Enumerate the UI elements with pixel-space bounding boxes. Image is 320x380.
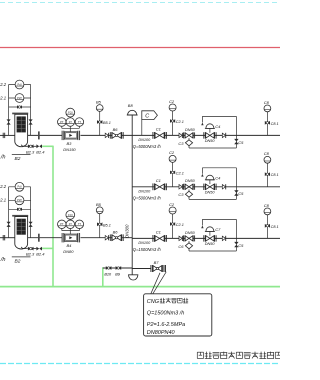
svg-text:DN80: DN80	[63, 249, 74, 254]
wire: B5 standpipe	[99, 112, 101, 136]
instrument TT B4	[75, 220, 84, 229]
wire: pilot sensing line	[201, 116, 203, 122]
svg-text:B7: B7	[154, 260, 160, 265]
flag connector C	[141, 120, 143, 136]
svg-text:B2.2: B2.2	[0, 184, 7, 189]
instrument PT B3	[58, 118, 67, 127]
wire: PdI rung B2	[9, 186, 31, 188]
svg-text:DN50: DN50	[185, 128, 196, 132]
wire: C8 standpipe	[266, 215, 268, 239]
note line 1 hanzi 用气预留口	[160, 298, 165, 303]
svg-text:B6: B6	[113, 127, 119, 132]
reducer	[179, 236, 182, 240]
check valve before B6	[105, 133, 108, 137]
wire: C2 standpipe	[172, 162, 174, 187]
valve tap right B2	[29, 119, 33, 122]
svg-text:PdI: PdI	[18, 82, 22, 86]
wire: outlet pipe B2	[28, 237, 62, 239]
svg-text:/h: /h	[0, 155, 5, 161]
bottom note 虚线内由河北安信整体撬	[197, 352, 203, 358]
svg-text:TT: TT	[78, 222, 82, 226]
red boundary line	[0, 47, 280, 49]
svg-text:B2.1: B2.1	[0, 198, 6, 203]
svg-text:B5.1: B5.1	[103, 223, 111, 227]
instrument PT B4	[58, 220, 67, 229]
svg-text:DN100: DN100	[138, 189, 151, 193]
svg-text:B6: B6	[113, 230, 119, 235]
flow meter B3 assembly	[61, 126, 63, 128]
svg-text:C6: C6	[178, 244, 184, 249]
valve C5	[234, 242, 238, 245]
wire: equalizer rung B2	[9, 106, 31, 108]
wire: drain collection line	[103, 267, 132, 269]
instrument FT B4	[66, 220, 75, 229]
wire: relief discharge loop	[188, 249, 190, 251]
check valve downstream	[222, 185, 225, 189]
vent triangle on pilot	[201, 225, 203, 228]
svg-text:PdI: PdI	[18, 185, 22, 189]
valve tap left B2	[7, 119, 11, 122]
filter vessel B2	[12, 215, 28, 217]
svg-text:B2.4: B2.4	[36, 252, 45, 257]
svg-text:PT: PT	[60, 120, 64, 124]
wire: PdI rung B2	[9, 84, 31, 86]
regulator C7	[203, 235, 205, 241]
wire: impulse tap left B2	[8, 85, 10, 136]
wire: drain line B2	[21, 247, 28, 249]
wire: equalizer rung B2	[9, 208, 31, 210]
svg-text:FT: FT	[69, 120, 73, 124]
flow meter B4 assembly	[61, 229, 63, 231]
wire: drain line B2	[21, 145, 28, 147]
svg-text:PT: PT	[60, 222, 64, 226]
wire: inlet pipe B2	[0, 237, 15, 239]
valve B7	[150, 265, 152, 272]
wire	[34, 248, 37, 250]
svg-text:DN50: DN50	[205, 139, 216, 143]
svg-text:DN150: DN150	[63, 147, 76, 152]
svg-text:C: C	[145, 114, 149, 120]
valve B6	[109, 234, 111, 241]
valve tap left B2	[7, 222, 11, 225]
wire: impulse tap right B2	[30, 187, 32, 238]
valve C8.1	[265, 224, 268, 228]
equipment tag B2	[12, 154, 31, 156]
svg-text:Q=5000Nm3 /h: Q=5000Nm3 /h	[133, 144, 162, 149]
svg-text:C4: C4	[215, 124, 221, 129]
instrument FQI B4 computer	[66, 211, 75, 220]
filter vessel B2	[12, 113, 28, 115]
valve C5	[234, 190, 238, 193]
instrument PdI B2.2	[15, 182, 24, 191]
regulator C4	[203, 184, 205, 190]
svg-text:C2: C2	[169, 150, 175, 155]
wire: impulse tap left B2	[8, 187, 10, 238]
valve DN50 inlet	[183, 235, 185, 241]
wire: outlet pipe B2	[28, 134, 62, 136]
instrument B5	[96, 105, 103, 112]
instrument PdT B2.1	[15, 94, 24, 103]
drain funnel	[129, 275, 138, 280]
valve DN50 inlet	[183, 184, 185, 190]
svg-text:B2.3: B2.3	[26, 149, 35, 154]
svg-text:C8.1: C8.1	[271, 173, 279, 177]
valve C1	[152, 132, 154, 139]
svg-text:B2.1: B2.1	[0, 95, 6, 100]
wire: regulator run pipe y=238.4	[132, 237, 280, 239]
svg-text:C2.1: C2.1	[176, 223, 184, 227]
valve DN50 inlet	[183, 132, 185, 138]
svg-text:C2: C2	[169, 202, 175, 207]
svg-text:DN100: DN100	[138, 138, 151, 142]
svg-text:C1: C1	[156, 178, 161, 183]
svg-text:B5.1: B5.1	[103, 121, 111, 125]
svg-text:C7: C7	[215, 227, 221, 232]
green drain riser	[52, 146, 54, 287]
svg-text:B2: B2	[15, 156, 21, 162]
svg-text:C2.1: C2.1	[176, 171, 184, 175]
svg-text:C1: C1	[156, 230, 161, 235]
wire: impulse tap right B2	[30, 85, 32, 136]
svg-text:B10: B10	[104, 272, 112, 276]
check valve before B6	[105, 236, 108, 240]
flange on outlet B2	[38, 131, 40, 139]
instrument PdT B2.1	[15, 196, 24, 205]
header pipe DN300	[131, 115, 133, 275]
svg-text:B5: B5	[96, 202, 102, 207]
valve B9	[116, 266, 119, 270]
note box CNG reserved outlet	[144, 294, 212, 336]
valve C5	[234, 139, 238, 142]
instrument C2	[169, 207, 176, 214]
check valve B2.4	[36, 144, 39, 148]
svg-text:B5: B5	[96, 100, 102, 105]
valve C2.1	[170, 119, 173, 123]
wire: downstream vertical	[235, 219, 237, 251]
instrument C2	[169, 104, 176, 111]
wire: C2 standpipe	[172, 214, 174, 239]
wire: C8 standpipe	[266, 163, 268, 187]
svg-text:CNG: CNG	[147, 299, 160, 305]
wire: PdT rung B2	[9, 199, 31, 201]
svg-text:C8: C8	[264, 203, 270, 208]
svg-text:C8: C8	[264, 100, 270, 105]
instrument C8	[264, 156, 271, 163]
svg-text:C5: C5	[238, 140, 244, 145]
svg-text:DN100: DN100	[138, 241, 151, 245]
svg-text:TT: TT	[78, 120, 82, 124]
reducer	[179, 185, 182, 189]
flange on outlet B2	[38, 234, 40, 242]
bottom cyan boundary line	[0, 363, 280, 365]
wire	[34, 145, 37, 147]
svg-text:C3: C3	[178, 141, 184, 146]
check valve downstream	[222, 133, 225, 137]
reducer	[179, 133, 182, 137]
header top cap B8	[128, 110, 137, 115]
wire: reserved outlet line B7	[132, 268, 151, 270]
valve equalizer B2.5	[17, 208, 20, 211]
valve C8.1	[265, 172, 268, 176]
svg-text:FQI: FQI	[68, 213, 73, 217]
relief valve C3 (diamond)	[188, 138, 190, 140]
green drain line from filter B2 row2	[42, 247, 54, 249]
instrument TT B3	[75, 118, 84, 127]
svg-text:C4: C4	[215, 175, 221, 180]
instrument FT B3	[66, 118, 75, 127]
svg-text:B2: B2	[15, 259, 21, 265]
wire: pilot sensing line	[201, 219, 203, 225]
svg-text:B2.4: B2.4	[36, 149, 45, 154]
valve equalizer B2.5	[17, 105, 20, 108]
wire: inlet pipe B2	[0, 134, 15, 136]
svg-text:PdT: PdT	[17, 96, 22, 100]
wire: relief discharge loop	[188, 146, 190, 148]
svg-text:B4: B4	[67, 243, 73, 248]
relief valve C6 (diamond)	[188, 241, 190, 243]
top cyan boundary line	[0, 2, 280, 4]
check valve B2.4	[36, 247, 39, 251]
green drain line from filter B2 row1	[42, 145, 53, 147]
flange inlet B2	[2, 133, 4, 138]
svg-text:PdT: PdT	[17, 198, 22, 202]
svg-text:C3: C3	[178, 192, 184, 197]
relief valve C3 (diamond)	[188, 189, 190, 191]
instrument C2	[169, 155, 176, 162]
valve C2.1	[170, 171, 173, 175]
wire: pipe after meter	[81, 134, 133, 136]
svg-text:Q=5000Nm3 /h: Q=5000Nm3 /h	[133, 195, 162, 200]
green vent header	[0, 286, 280, 288]
valve C1	[152, 183, 154, 190]
flow meter B3 body	[61, 131, 63, 140]
valve C8.1	[265, 121, 268, 125]
wire: downstream vertical	[235, 116, 237, 148]
valve B10	[106, 266, 109, 270]
svg-text:B2.3: B2.3	[26, 252, 35, 257]
valve C2.1	[170, 222, 173, 226]
svg-text:P2=1.6-2.5MPa: P2=1.6-2.5MPa	[147, 322, 185, 328]
svg-text:C8.1: C8.1	[271, 225, 279, 229]
svg-text:FQI: FQI	[68, 111, 73, 115]
svg-text:DN50: DN50	[205, 242, 216, 246]
flow meter B4 body	[61, 233, 63, 242]
wire: relief discharge loop	[188, 197, 190, 199]
valve B2.3	[28, 144, 31, 148]
svg-text:/h: /h	[0, 257, 5, 263]
instrument B5	[96, 207, 103, 214]
wire: C2 standpipe	[172, 111, 174, 135]
wire: PdT rung B2	[9, 97, 31, 99]
instrument C8	[264, 105, 271, 112]
valve B6	[109, 132, 111, 139]
svg-text:C2.1: C2.1	[176, 120, 184, 124]
regulator C4	[203, 132, 205, 138]
green drain drop from B10/B9	[102, 267, 104, 287]
wire: regulator run pipe y=135.4	[132, 134, 280, 136]
svg-text:DN300: DN300	[125, 224, 130, 238]
flange inlet B2	[2, 235, 4, 240]
svg-text:C8.1: C8.1	[271, 122, 279, 126]
svg-text:C5: C5	[238, 191, 244, 196]
valve tap right B2	[29, 222, 33, 225]
wire: regulator run pipe y=186.8	[132, 186, 280, 188]
equipment tag B2	[12, 256, 31, 258]
wire: pilot sensing line	[201, 168, 203, 174]
svg-text:DN50: DN50	[185, 179, 196, 183]
check valve downstream	[222, 236, 225, 240]
leader lines to note box	[153, 272, 166, 294]
wire: downstream vertical	[235, 168, 237, 200]
vent triangle on pilot	[201, 174, 203, 177]
svg-text:DN50: DN50	[185, 231, 196, 235]
svg-text:C2: C2	[169, 99, 175, 104]
instrument C8	[264, 208, 271, 215]
svg-text:B8: B8	[128, 103, 134, 108]
wire: pipe after meter	[81, 237, 133, 239]
svg-text:B2.2: B2.2	[0, 82, 7, 87]
svg-text:DN80PN40: DN80PN40	[147, 330, 176, 336]
svg-text:C8: C8	[264, 151, 270, 156]
svg-text:FT: FT	[69, 222, 73, 226]
instrument PdI B2.2	[15, 80, 24, 89]
vent triangle on pilot	[201, 122, 203, 125]
svg-text:C1: C1	[156, 127, 161, 132]
valve C1	[152, 235, 154, 242]
wire: C8 standpipe	[266, 112, 268, 136]
valve B5.1	[97, 222, 100, 226]
instrument FQI B3 computer	[66, 108, 75, 117]
svg-text:C5: C5	[238, 243, 244, 248]
svg-text:Q=1500Nm3 /h: Q=1500Nm3 /h	[147, 311, 184, 317]
valve B2.3	[28, 247, 31, 251]
wire: B5 standpipe	[99, 214, 101, 238]
svg-text:B3: B3	[67, 141, 73, 146]
svg-text:DN50: DN50	[205, 190, 216, 194]
valve B5.1	[97, 120, 100, 124]
blind flange cap	[164, 265, 166, 272]
svg-text:Q=1500Nm3 /h: Q=1500Nm3 /h	[133, 247, 162, 252]
